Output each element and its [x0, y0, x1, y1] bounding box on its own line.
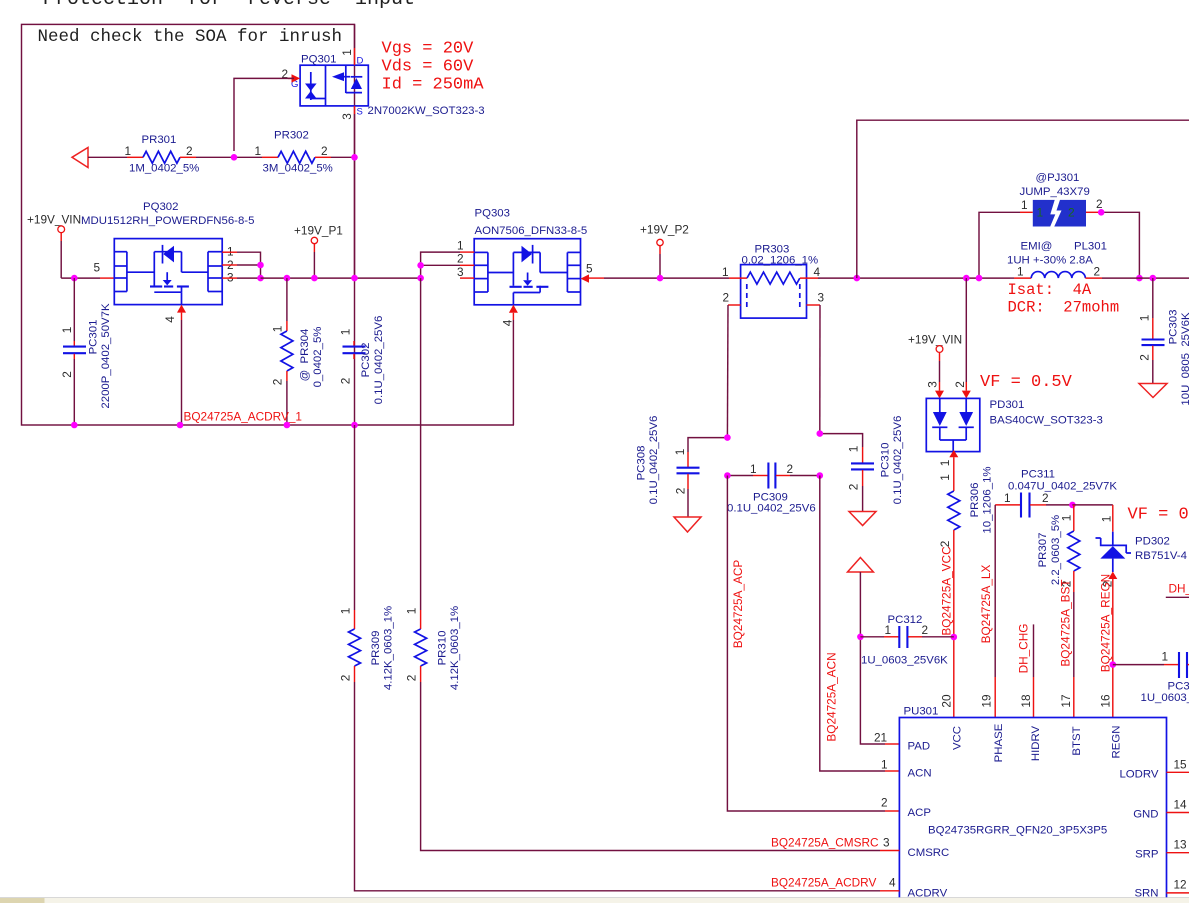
svg-text:PC310: PC310 — [880, 443, 892, 478]
wire bus PQ303 to PR303 — [604, 277, 729, 279]
svg-text:PC301: PC301 — [88, 320, 100, 355]
svg-text:2200P_0402_50V7K: 2200P_0402_50V7K — [100, 303, 112, 409]
svg-text:PC3: PC3 — [1168, 681, 1189, 693]
wire PQ301 gate to junction — [234, 78, 294, 151]
pin labels PC301 — [60, 327, 74, 378]
svg-text:PC312: PC312 — [888, 614, 923, 626]
ground under PC303 — [1139, 384, 1167, 398]
junctions at PQ303 inputs — [417, 262, 424, 281]
pin labels PC310 — [847, 446, 861, 491]
wire bus to PD301 pin2 — [965, 278, 967, 382]
value BAS40CW_SOT323-3 — [990, 415, 1103, 427]
svg-text:1: 1 — [1037, 206, 1044, 220]
svg-text:PU301: PU301 — [904, 706, 939, 718]
svg-text:Vds = 60V: Vds = 60V — [382, 58, 475, 77]
svg-text:S: S — [357, 107, 363, 118]
wire REGN run — [1112, 665, 1114, 718]
wire PR303 pin3 down — [819, 305, 821, 434]
svg-text:1: 1 — [255, 144, 262, 158]
svg-text:PR302: PR302 — [274, 130, 309, 142]
value BQ24735RGRR_QFN20_3P5X3P5 — [928, 825, 1107, 837]
power port +19V_P1 — [294, 224, 343, 279]
label PD301 — [990, 399, 1025, 411]
capacitor PC302 — [343, 341, 366, 359]
pin labels PC309 — [750, 462, 793, 476]
svg-text:PQ302: PQ302 — [143, 201, 178, 213]
wire PR303 pin2 down — [726, 305, 729, 438]
pin 3 CMSRC — [883, 836, 949, 860]
pin labels PL301 — [1017, 265, 1100, 279]
pin 1 of PQ301 — [340, 48, 364, 67]
svg-text:12: 12 — [1174, 878, 1187, 892]
value MDU1512RH_POWERDFN56-8-5 — [81, 215, 254, 227]
net label BQ24725A_BST — [1059, 579, 1073, 666]
svg-text:BQ24725A_ACDRV_1: BQ24725A_ACDRV_1 — [184, 410, 302, 424]
resistor PR303 sense — [728, 265, 820, 319]
wire ACDRV run — [354, 425, 356, 629]
svg-text:1: 1 — [271, 326, 285, 333]
svg-text:1U_0603_25V6K: 1U_0603_25V6K — [861, 655, 948, 667]
wire PC311 node to PD302 — [1072, 504, 1112, 506]
net label BQ24725A_ACN — [825, 652, 839, 741]
wire PQ301 drain up to box top — [354, 24, 356, 48]
svg-text:AON7506_DFN33-8-5: AON7506_DFN33-8-5 — [475, 225, 588, 237]
svg-text:1: 1 — [1017, 265, 1024, 279]
pin labels PD302 — [1100, 516, 1115, 588]
svg-text:2: 2 — [271, 379, 285, 386]
svg-text:5: 5 — [94, 261, 101, 275]
svg-text:4: 4 — [163, 316, 177, 323]
svg-text:2: 2 — [1068, 206, 1075, 220]
wire main bus left segment — [61, 277, 100, 279]
pin labels PC308 — [673, 449, 688, 495]
svg-text:2: 2 — [321, 144, 328, 158]
value 2200P_0402_50V7K — [100, 303, 112, 409]
svg-text:1: 1 — [339, 608, 353, 615]
diode PD302 — [1096, 505, 1132, 665]
value 0.047U_0402_25V7K — [1008, 481, 1117, 493]
value 10_1206_1% — [982, 466, 994, 533]
svg-text:3: 3 — [457, 265, 464, 279]
svg-text:2: 2 — [60, 371, 74, 378]
resistor PR310 — [415, 629, 900, 851]
note text — [38, 27, 343, 47]
svg-text:1: 1 — [1162, 650, 1169, 664]
junction riser top-right — [854, 275, 861, 282]
junction +19V_P1 on bus — [311, 275, 318, 282]
pins 1 2 3 of PQ303 — [421, 239, 475, 279]
junction REGN to PC313 — [1110, 661, 1117, 668]
svg-text:BQ24725A_BST: BQ24725A_BST — [1059, 579, 1073, 666]
svg-text:1: 1 — [1138, 315, 1152, 322]
svg-text:1: 1 — [1004, 491, 1011, 505]
pin 13 SRP — [1135, 838, 1189, 861]
label PC302 — [360, 343, 372, 378]
pin labels PR309 — [339, 608, 353, 682]
capacitor PC310 — [820, 434, 874, 512]
svg-text:PR306: PR306 — [969, 483, 981, 518]
svg-text:5: 5 — [586, 262, 593, 276]
svg-text:DH_CHG: DH_CHG — [1017, 624, 1031, 674]
net label BQ24725A_REGN — [1099, 574, 1113, 672]
svg-text:1: 1 — [722, 265, 729, 279]
junction PC303 top — [1150, 275, 1157, 282]
svg-text:0_0402_5%: 0_0402_5% — [312, 327, 324, 388]
net label DH_ at right edge — [1169, 582, 1189, 596]
junction PC308 branch — [724, 434, 731, 441]
red condition text VF — [980, 373, 1073, 392]
svg-text:BTST: BTST — [1071, 726, 1083, 755]
svg-text:1: 1 — [938, 474, 952, 481]
label @PJ301 — [1036, 172, 1080, 184]
svg-text:SRP: SRP — [1135, 849, 1158, 861]
pin 3 of PQ301 — [340, 106, 363, 120]
pin 16 REGN — [1098, 694, 1122, 758]
pin labels PJ301 — [1021, 197, 1103, 212]
pin 2 label PR306 — [938, 541, 952, 548]
red condition text VF of PD302 — [1128, 506, 1189, 525]
svg-text:2: 2 — [457, 252, 464, 266]
svg-text:2: 2 — [1094, 265, 1101, 279]
junction PC312 to PAD — [857, 634, 864, 641]
svg-text:14: 14 — [1174, 798, 1188, 812]
pin 2 ACP — [881, 796, 931, 820]
red condition text Isat DCR — [1008, 281, 1120, 317]
svg-text:3: 3 — [818, 291, 825, 305]
svg-text:PAD: PAD — [908, 741, 931, 753]
label @ PR304 — [299, 329, 311, 382]
label PC313 — [1168, 681, 1189, 693]
ground under PC310 — [849, 512, 876, 526]
junctions jumper risers on bus — [976, 275, 1143, 282]
off-page arrow up on PAD net — [848, 558, 874, 573]
resistor PR309 — [349, 629, 900, 891]
pin labels PC311 — [1004, 491, 1049, 505]
svg-text:0.02_1206_1%: 0.02_1206_1% — [742, 255, 819, 267]
net label BQ24725A_LX — [979, 565, 993, 644]
IC PU301 — [899, 718, 1166, 903]
svg-text:PR301: PR301 — [142, 134, 177, 146]
capacitor PC303 — [1142, 278, 1165, 383]
svg-text:21: 21 — [874, 731, 887, 745]
svg-text:VF = 0.5V: VF = 0.5V — [980, 373, 1073, 392]
title text Protection for reverse input (cut off at top) — [43, 0, 415, 11]
capacitor PC313 — [1113, 652, 1189, 678]
wire PR301 to PR302 — [196, 156, 262, 158]
svg-text:0.1U_0402_25V6: 0.1U_0402_25V6 — [373, 316, 385, 405]
pin labels PR301 — [125, 144, 193, 158]
pin labels PC302 — [339, 329, 353, 385]
label PR306 — [969, 483, 981, 518]
svg-text:3: 3 — [340, 113, 354, 120]
power port +19V_P2 — [640, 223, 689, 279]
svg-text:0.1U_0402_25V6: 0.1U_0402_25V6 — [892, 416, 904, 505]
svg-text:@ PR304: @ PR304 — [299, 329, 311, 382]
svg-text:GND: GND — [1133, 809, 1158, 821]
value 0.1U_0402_25V6 of PC308 — [648, 416, 660, 505]
junction PR304 top — [284, 275, 291, 282]
svg-text:1: 1 — [457, 239, 464, 253]
svg-text:PR309: PR309 — [370, 631, 382, 666]
value 3M_0402_5% — [263, 163, 333, 175]
svg-text:D: D — [357, 56, 364, 67]
wire PAD run — [860, 572, 899, 744]
svg-text:Protection for reverse inpu: Protection for reverse input — [43, 0, 415, 11]
jumper pad numbers — [1037, 206, 1076, 220]
svg-text:18: 18 — [1019, 694, 1033, 708]
svg-text:BAS40CW_SOT323-3: BAS40CW_SOT323-3 — [990, 415, 1103, 427]
svg-text:4.12K_0603_1%: 4.12K_0603_1% — [383, 606, 395, 690]
value RB751V-4 — [1135, 550, 1187, 562]
svg-text:PR307: PR307 — [1037, 533, 1049, 568]
value 0.1U_0402_25V6 — [373, 316, 385, 405]
svg-text:PC302: PC302 — [360, 343, 372, 378]
label PR307 — [1037, 533, 1049, 568]
pin 4 of PQ303 — [501, 305, 518, 425]
pin 4 ACDRV — [889, 876, 948, 900]
svg-text:19: 19 — [980, 694, 994, 707]
value 1U_0603_25V6K — [861, 655, 948, 667]
capacitor PC308 — [677, 438, 728, 517]
wire DH_ to edge — [1166, 596, 1189, 598]
svg-text:2: 2 — [881, 796, 888, 810]
svg-text:PC308: PC308 — [636, 446, 648, 481]
label PC311 — [1021, 469, 1055, 481]
red condition text for PQ301 — [382, 40, 485, 95]
svg-text:1: 1 — [405, 608, 419, 615]
junction PR302 to source wire — [351, 154, 358, 161]
label PC301 — [88, 320, 100, 355]
svg-text:2: 2 — [339, 675, 353, 682]
svg-text:1: 1 — [60, 327, 74, 334]
svg-text:BQ24725A_CMSRC: BQ24725A_CMSRC — [771, 836, 879, 850]
label PC308 — [636, 446, 648, 481]
svg-text:PQ301: PQ301 — [301, 54, 336, 66]
power port +19V_VIN — [27, 213, 81, 279]
value 0.02_1206_1% — [742, 255, 819, 267]
svg-text:2: 2 — [405, 675, 419, 682]
capacitor PC309 — [727, 463, 819, 489]
svg-text:BQ24725A_ACP: BQ24725A_ACP — [731, 560, 745, 649]
label PR309 — [370, 631, 382, 666]
transistor PQ303 — [474, 239, 580, 305]
pin 21 PAD — [874, 731, 930, 753]
jumper PJ301 — [979, 199, 1139, 278]
resistor PR306 — [948, 491, 960, 718]
svg-text:0.1U_0402_25V6: 0.1U_0402_25V6 — [727, 503, 816, 515]
junction PC310 branch — [817, 430, 824, 437]
svg-text:LODRV: LODRV — [1119, 769, 1158, 781]
junction PC301 top — [71, 275, 78, 282]
junction PD301 riser on bus — [963, 275, 970, 282]
svg-text:BQ24725A_VCC: BQ24725A_VCC — [940, 546, 954, 636]
junctions at PQ302 outputs — [257, 262, 264, 282]
svg-text:0.1U_0402_25V6: 0.1U_0402_25V6 — [648, 416, 660, 505]
svg-text:PC311: PC311 — [1021, 469, 1055, 481]
resistor PR304 — [281, 278, 293, 425]
svg-text:VF = 0: VF = 0 — [1128, 506, 1189, 525]
label PR301 — [142, 134, 177, 146]
svg-text:BQ24725A_ACN: BQ24725A_ACN — [825, 652, 839, 741]
svg-text:ACP: ACP — [908, 807, 931, 819]
pin labels PR304 — [271, 326, 285, 386]
svg-text:ACN: ACN — [908, 768, 932, 780]
resistor PR307 — [1068, 505, 1080, 718]
pin labels PR307 — [1060, 515, 1074, 588]
label PR310 — [437, 631, 449, 666]
wire ACN run — [820, 476, 900, 772]
resistor PR301 — [88, 151, 196, 163]
pins 1 2 3 of PQ302 — [222, 245, 260, 285]
wire PQ301 source down to PR302 — [354, 114, 356, 278]
value 1M_0402_5% — [129, 163, 199, 175]
value JUMP_43X79 — [1020, 186, 1090, 198]
svg-text:PD302: PD302 — [1135, 536, 1170, 548]
svg-text:1: 1 — [881, 758, 888, 772]
svg-text:REGN: REGN — [1111, 726, 1123, 759]
svg-text:1U_0603_: 1U_0603_ — [1141, 692, 1189, 704]
junction PC312 to VCC — [951, 634, 958, 641]
value 10U_0805_25V6K — [1180, 312, 1189, 406]
svg-text:PD301: PD301 — [990, 399, 1025, 411]
junctions PC309 row — [724, 472, 823, 479]
svg-text:CMSRC: CMSRC — [908, 847, 950, 859]
label PQ302 — [143, 201, 178, 213]
svg-text:HIDRV: HIDRV — [1030, 725, 1042, 761]
net label BQ24725A_CMSRC — [771, 836, 879, 850]
value 0.1U_0402_25V6 of PC310 — [892, 416, 904, 505]
junction at PQ301 gate wire — [231, 154, 238, 161]
inductor PL301 — [1010, 272, 1189, 279]
svg-text:13: 13 — [1174, 838, 1188, 852]
svg-text:+19V_P2: +19V_P2 — [640, 223, 689, 237]
label PU301 — [904, 706, 939, 718]
svg-text:1: 1 — [339, 329, 353, 336]
svg-text:10_1206_1%: 10_1206_1% — [982, 466, 994, 533]
svg-text:1: 1 — [1100, 516, 1114, 523]
power port +19V_VIN at PD301 — [908, 333, 962, 383]
transistor PQ301 — [300, 65, 368, 106]
label EMI@ PL301 — [1021, 241, 1107, 253]
capacitor PC301 — [63, 278, 86, 425]
svg-text:4: 4 — [501, 319, 515, 326]
svg-text:@PJ301: @PJ301 — [1036, 172, 1080, 184]
pin 1 ACN — [881, 758, 932, 780]
svg-text:1: 1 — [125, 144, 132, 158]
svg-text:2: 2 — [953, 381, 967, 388]
diode PD301 — [926, 381, 980, 452]
wire ACP run — [727, 476, 899, 812]
svg-text:3M_0402_5%: 3M_0402_5% — [263, 163, 333, 175]
net label BQ24725A_ACDRV — [771, 876, 876, 890]
svg-text:1: 1 — [938, 460, 952, 467]
wire riser to top right rail — [857, 120, 1189, 278]
value 4.12K_0603_1% of PR309 — [383, 606, 395, 690]
pin 15 LODRV — [1119, 758, 1189, 781]
label PC310 — [880, 443, 892, 478]
value 4.12K_0603_1% of PR310 — [449, 606, 461, 690]
svg-text:PC303: PC303 — [1168, 310, 1180, 345]
pin labels PC312 — [885, 623, 929, 637]
value 2.2_0603_5% — [1050, 515, 1062, 585]
net label DH_CHG — [1017, 624, 1031, 674]
svg-text:+19V_VIN: +19V_VIN — [908, 333, 962, 347]
svg-text:1: 1 — [847, 446, 861, 453]
value 0.1U_0402_25V6 of PC309 — [727, 503, 816, 515]
resistor PR302 — [262, 151, 355, 163]
junction PC311 pin2 node — [1069, 502, 1076, 509]
svg-text:JUMP_43X79: JUMP_43X79 — [1020, 186, 1090, 198]
pin 17 BTST — [1059, 694, 1083, 755]
pin 5 label PQ302 — [94, 261, 101, 275]
svg-text:2: 2 — [938, 541, 952, 548]
svg-text:BQ24725A_REGN: BQ24725A_REGN — [1099, 574, 1113, 672]
label PC303 — [1168, 310, 1180, 345]
svg-text:Vgs = 20V: Vgs = 20V — [382, 40, 475, 59]
label PC312 — [888, 614, 923, 626]
svg-text:15: 15 — [1174, 758, 1188, 772]
label PQ303 — [475, 208, 510, 220]
svg-text:BQ24735RGRR_QFN20_3P5X3P5: BQ24735RGRR_QFN20_3P5X3P5 — [928, 825, 1107, 837]
svg-text:2N7002KW_SOT323-3: 2N7002KW_SOT323-3 — [368, 105, 485, 117]
svg-text:0.047U_0402_25V7K: 0.047U_0402_25V7K — [1008, 481, 1117, 493]
value 2N7002KW_SOT323-3 — [368, 105, 485, 117]
svg-text:+19V_P1: +19V_P1 — [294, 224, 343, 238]
label PD302 — [1135, 536, 1170, 548]
net label BQ24725A_ACDRV_1 — [184, 410, 302, 424]
pin 18 HIDRV — [1019, 694, 1042, 761]
svg-text:PHASE: PHASE — [993, 723, 1005, 762]
pin 20 VCC — [940, 694, 964, 750]
wire DH_CHG stub — [1033, 624, 1035, 717]
svg-text:2: 2 — [186, 144, 193, 158]
svg-text:DCR: 27mohm: DCR: 27mohm — [1008, 299, 1120, 317]
svg-text:BQ24725A_ACDRV: BQ24725A_ACDRV — [771, 876, 876, 890]
svg-text:DH_: DH_ — [1169, 582, 1189, 596]
pin 4 of PQ302 — [163, 305, 186, 425]
wire CMSRC run — [420, 278, 422, 629]
svg-text:2: 2 — [922, 623, 929, 637]
svg-text:Need check the SOA for inrush: Need check the SOA for inrush — [38, 27, 343, 47]
pin 12 SRN — [1134, 878, 1189, 900]
pin labels PR303 — [722, 265, 825, 305]
svg-text:1: 1 — [340, 49, 354, 56]
svg-text:1: 1 — [1021, 198, 1028, 212]
pin 5 of PQ303 — [581, 262, 605, 283]
wire bus PQ302 to PQ303 — [261, 277, 421, 279]
svg-text:4: 4 — [814, 265, 821, 279]
svg-text:2: 2 — [723, 291, 730, 305]
svg-text:1M_0402_5%: 1M_0402_5% — [129, 163, 199, 175]
svg-text:PL301: PL301 — [1074, 241, 1107, 253]
junctions on bottom rail — [71, 422, 358, 429]
wire bus PR303 to inductor — [818, 277, 1010, 279]
svg-text:EMI@: EMI@ — [1021, 241, 1053, 253]
label PQ301 — [301, 54, 336, 66]
svg-text:VCC: VCC — [951, 726, 963, 750]
svg-text:Id = 250mA: Id = 250mA — [382, 76, 485, 95]
label PC309 — [753, 492, 788, 504]
bottom status strip — [0, 898, 1189, 903]
svg-text:16: 16 — [1098, 694, 1112, 708]
svg-text:2: 2 — [1138, 354, 1152, 361]
svg-text:PR310: PR310 — [437, 631, 449, 666]
svg-text:2: 2 — [674, 488, 688, 495]
svg-text:RB751V-4: RB751V-4 — [1135, 550, 1187, 562]
svg-text:1: 1 — [673, 449, 687, 456]
svg-text:2: 2 — [1042, 491, 1049, 505]
svg-text:2: 2 — [339, 378, 353, 385]
